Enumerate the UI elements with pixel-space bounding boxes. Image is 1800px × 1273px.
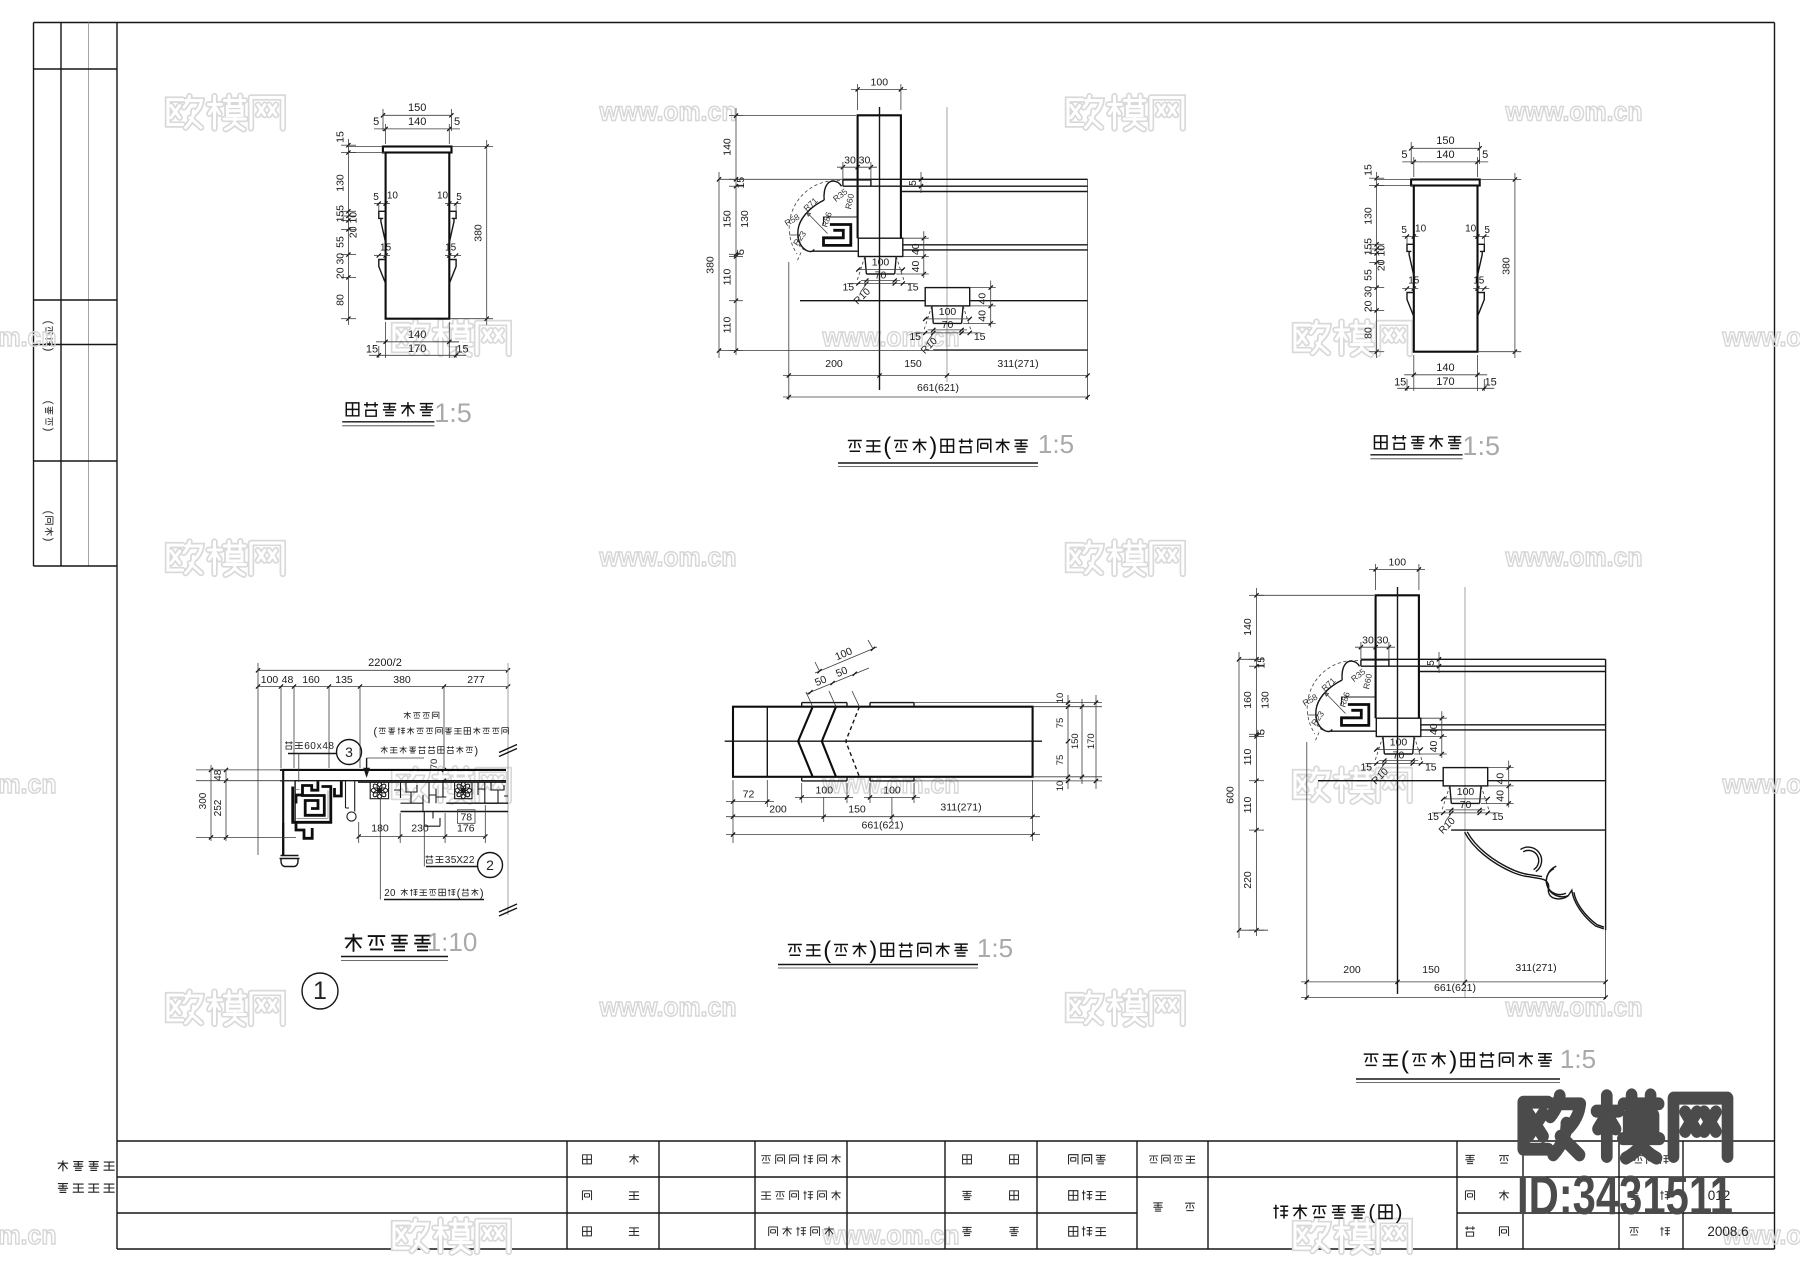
svg-text:15: 15 — [1394, 377, 1406, 389]
drawing6 lower dou block height dims 40 40 — [1508, 761, 1510, 808]
svg-text:1:5: 1:5 — [1038, 429, 1074, 459]
svg-text:15: 15 — [335, 131, 347, 143]
drawing6 bottom dim 661 — [1301, 997, 1606, 999]
drawing6 title — [1364, 1054, 1379, 1065]
drawing2 upper dou block height dims 40 40 — [923, 231, 925, 278]
svg-text:www.om.cn: www.om.cn — [822, 322, 960, 352]
drawing6 column centerline — [1397, 587, 1399, 870]
svg-text:170: 170 — [1436, 376, 1454, 388]
site logo oumowang dark overlay — [1523, 1096, 1580, 1155]
svg-text:252: 252 — [213, 799, 224, 816]
svg-text:): ) — [1396, 1201, 1403, 1224]
drawing4 rosette 1 box — [370, 782, 388, 799]
drawing4 mid fret band — [394, 782, 446, 811]
svg-text:www.om.cn: www.om.cn — [1505, 542, 1643, 572]
svg-text:100: 100 — [261, 674, 279, 686]
svg-text:380: 380 — [393, 674, 411, 686]
svg-text:661(621): 661(621) — [861, 820, 903, 832]
drawing2 cloud bracket comma hook — [824, 181, 842, 200]
svg-text:40: 40 — [977, 310, 989, 322]
drawing1 yuntou section (top-left) column cap — [383, 147, 452, 153]
drawing6 beam1 lines — [1361, 658, 1606, 660]
drawing1 yuntou section (top-left) column body — [386, 153, 450, 319]
svg-text:(: ( — [1401, 1047, 1410, 1074]
svg-text:277: 277 — [467, 674, 485, 686]
drawing1 yuntou section (top-left) bracket upper left — [379, 211, 386, 242]
drawing6 dim 30 30 at ledge — [1355, 646, 1395, 648]
svg-text:200: 200 — [769, 804, 787, 816]
svg-text:5: 5 — [1363, 238, 1375, 244]
strip rotated label (discipline) — [42, 511, 56, 542]
drawing2 column centerline — [879, 107, 881, 390]
drawing2 lower dou block outline — [925, 288, 970, 306]
drawing1 yuntou section (top-left) title — [346, 403, 359, 416]
drawing3 yuntou section (top-right) right dim 380 — [1514, 173, 1516, 358]
svg-text:5: 5 — [1401, 225, 1407, 236]
svg-text:(: ( — [1368, 1201, 1375, 1224]
drawing1 yuntou section (top-left) bottom dim 140 — [385, 322, 387, 358]
svg-text:150: 150 — [1422, 964, 1440, 976]
drawing4 column base — [280, 856, 300, 867]
svg-text:(: ( — [883, 433, 891, 460]
svg-text:170: 170 — [1086, 733, 1097, 749]
svg-text:1:5: 1:5 — [1462, 431, 1500, 461]
svg-text:48: 48 — [282, 674, 294, 686]
drawing6 beam2 lines — [1421, 724, 1606, 726]
drawing6 upper dou block height dims 40 40 — [1441, 711, 1443, 758]
svg-text:40: 40 — [910, 261, 922, 273]
svg-text:100: 100 — [939, 306, 957, 318]
svg-text:3: 3 — [445, 855, 451, 866]
drawing2 upper dou block outline — [858, 238, 903, 256]
svg-text:10: 10 — [1465, 224, 1477, 235]
svg-text:(: ( — [42, 401, 56, 405]
drawing5 chevron B — [822, 707, 836, 777]
svg-text:70: 70 — [875, 270, 887, 282]
drawing5 title — [788, 944, 802, 955]
svg-text:661(621): 661(621) — [917, 382, 959, 394]
svg-text:15: 15 — [1473, 276, 1485, 287]
drawing4 mid fret lower hook — [424, 812, 440, 827]
svg-text:): ) — [869, 937, 877, 964]
svg-text:5: 5 — [335, 205, 347, 211]
drawing3 yuntou section (top-right) bottom dim 140 — [1413, 355, 1415, 391]
svg-text:380: 380 — [473, 224, 485, 242]
svg-text:5: 5 — [908, 180, 919, 186]
drawing5 chevron C dashed — [846, 707, 860, 777]
svg-text:170: 170 — [408, 343, 426, 355]
drawing3 yuntou section (top-right) top dim 150 — [1411, 147, 1479, 149]
drawing6 cloud bracket fret — [1342, 705, 1369, 726]
svg-text:10: 10 — [437, 191, 449, 202]
drawing6 lower dou block dims — [1442, 798, 1489, 800]
svg-text:40: 40 — [1495, 790, 1507, 802]
svg-text:130: 130 — [739, 210, 751, 228]
drawing4 right axis with breaks — [507, 663, 509, 915]
drawing2 cloud bracket bottom edge — [812, 250, 858, 252]
svg-text:200: 200 — [1343, 964, 1361, 976]
drawing6 cloud bracket dashed reference arc — [1307, 660, 1358, 734]
drawing4 column — [282, 770, 284, 856]
svg-text:www.om.cn: www.om.cn — [1505, 992, 1643, 1022]
svg-text:): ) — [42, 538, 56, 542]
svg-text:): ) — [480, 887, 484, 899]
svg-text:150: 150 — [408, 102, 426, 114]
svg-text:3: 3 — [345, 744, 353, 760]
drawing2 cloud bracket dashed reference arc — [789, 180, 840, 254]
drawing1 yuntou section (top-left) bracket upper right — [449, 211, 456, 242]
svg-text:5: 5 — [1401, 149, 1407, 161]
svg-text:www.om.cn: www.om.cn — [599, 97, 737, 127]
svg-text:1:5: 1:5 — [1560, 1044, 1596, 1074]
svg-text:200: 200 — [825, 358, 843, 370]
drawing6 bracket leader arrow — [1325, 693, 1346, 714]
svg-text:10: 10 — [387, 191, 399, 202]
svg-text:110: 110 — [722, 316, 734, 333]
drawing6 ledge — [1361, 660, 1389, 666]
svg-text:110: 110 — [1242, 796, 1254, 813]
drawing5 bottom pads — [802, 780, 847, 782]
drawing2 beam2 lines — [903, 244, 1088, 246]
drawing2 left dim chain — [735, 108, 737, 355]
drawing6 sparrow brace (queti) — [1465, 832, 1604, 929]
svg-text:150: 150 — [1436, 135, 1454, 147]
drawing1 yuntou section (top-left) left dim chain — [347, 139, 349, 325]
drawing1 yuntou section (top-left) right dim 380 — [486, 140, 488, 325]
drawing2 beam1 lines — [843, 178, 1088, 180]
svg-text:6: 6 — [304, 741, 310, 752]
svg-text:www.om.cn: www.om.cn — [1505, 97, 1643, 127]
svg-text:5: 5 — [735, 249, 747, 255]
drawing5 centerline — [725, 740, 1042, 742]
drawing5 top pads — [802, 702, 847, 704]
svg-text:140: 140 — [408, 116, 426, 128]
drawing2 dim 30 30 at ledge — [837, 166, 877, 168]
svg-text:x: x — [317, 741, 322, 752]
svg-text:15: 15 — [1485, 377, 1497, 389]
svg-text:140: 140 — [1436, 149, 1454, 161]
svg-text:20 30: 20 30 — [335, 253, 347, 279]
drawing3 yuntou section (top-right) bracket lower right — [1478, 293, 1485, 317]
drawing6 cloud bracket comma hook — [1342, 661, 1360, 680]
svg-text:15: 15 — [456, 344, 468, 356]
svg-text:www.om.cn: www.om.cn — [0, 1220, 57, 1250]
svg-text:15: 15 — [842, 282, 854, 294]
drawing4 rosette 1 — [371, 782, 388, 799]
drawing1 yuntou section (top-left) bottom dim 15 170 15 — [378, 346, 380, 358]
drawing6 cloud bracket main arc — [1316, 680, 1342, 731]
drawing2 bottom dims 200 150 311 — [788, 262, 790, 400]
svg-text:40: 40 — [1428, 723, 1440, 735]
drawing6 beam3 line — [1318, 780, 1443, 782]
svg-text:15: 15 — [380, 243, 392, 254]
svg-text:15: 15 — [735, 177, 747, 189]
drawing3 yuntou section (top-right) bracket upper left — [1407, 244, 1414, 275]
svg-text:8: 8 — [328, 741, 334, 752]
drawing2 overall dim 380 — [718, 172, 720, 358]
svg-text:100: 100 — [872, 257, 890, 269]
drawing2 title — [848, 440, 862, 451]
svg-text:www.om.cn: www.om.cn — [0, 322, 57, 352]
svg-text:20 30: 20 30 — [1363, 286, 1375, 312]
drawing4 note yingmu35X22 with bubble 2 — [426, 855, 434, 863]
drawing5 main dim 200 150 311 — [823, 797, 825, 822]
svg-text:www.om.cn: www.om.cn — [1722, 769, 1800, 799]
svg-text:75: 75 — [1055, 718, 1066, 729]
drawing5 dims 100 100 under pads — [801, 783, 803, 803]
svg-text:(: ( — [823, 937, 831, 964]
drawing5 right dim 170 — [1095, 695, 1097, 789]
svg-text:2: 2 — [384, 888, 389, 899]
drawing4 note gualuo unit — [404, 712, 411, 719]
svg-text:100: 100 — [883, 785, 901, 797]
svg-text:15: 15 — [366, 344, 378, 356]
drawing6 upper dou block outline — [1376, 718, 1421, 736]
svg-text:15: 15 — [1256, 657, 1268, 669]
svg-text:www.om.cn: www.om.cn — [1722, 322, 1800, 352]
drawing6 lower dou block outline — [1443, 768, 1488, 786]
drawing2 column — [858, 115, 901, 238]
drawing4 big fret left — [296, 781, 318, 803]
svg-text:5: 5 — [1426, 660, 1437, 666]
drawing2 bracket leader arrow — [807, 213, 828, 234]
svg-text:www.om.cn: www.om.cn — [599, 542, 737, 572]
strip rotated label (signature) — [42, 401, 56, 432]
svg-text:661(621): 661(621) — [1434, 982, 1476, 994]
svg-text:55: 55 — [335, 236, 347, 248]
drawing6 centerline extension — [1397, 870, 1399, 994]
svg-text:140: 140 — [1242, 618, 1254, 636]
drawing2 beam3 line — [800, 300, 925, 302]
svg-text:15: 15 — [1363, 244, 1375, 256]
svg-text:15: 15 — [974, 331, 986, 343]
title block labels col responsible — [761, 1156, 771, 1163]
svg-text:20 10: 20 10 — [348, 212, 360, 238]
svg-text:30: 30 — [844, 155, 856, 167]
drawing4 top dim 2200/2 — [258, 669, 508, 671]
svg-text:150: 150 — [904, 358, 922, 370]
svg-text:(: ( — [457, 887, 461, 899]
drawing4 bubble 1 — [302, 973, 338, 1009]
drawing3 yuntou section (top-right) left dim chain — [1376, 172, 1378, 358]
svg-text:80: 80 — [1363, 327, 1375, 339]
svg-text:15: 15 — [907, 282, 919, 294]
drawing6 left dim chain — [1256, 588, 1258, 936]
drawing6 overall dim 600 — [1238, 652, 1240, 938]
drawing2 cloud bracket main arc — [798, 200, 824, 251]
svg-text:15: 15 — [1360, 762, 1372, 774]
svg-text:40: 40 — [1428, 741, 1440, 753]
drawing2 upper dou block dims — [857, 269, 904, 271]
svg-text:): ) — [1449, 1047, 1457, 1074]
svg-text:380: 380 — [705, 256, 717, 274]
title block labels col shen-ding — [583, 1155, 592, 1164]
drawing2 lower dou block height dims 40 40 — [990, 281, 992, 328]
svg-text:230: 230 — [411, 823, 429, 835]
svg-text:(: ( — [42, 511, 56, 515]
svg-text:www.om.cn: www.om.cn — [822, 1220, 960, 1250]
drawing2 cloud bracket fret — [824, 225, 851, 246]
drawing1 yuntou section (top-left) bracket lower right — [449, 260, 456, 284]
svg-text:600: 600 — [1225, 786, 1237, 804]
drawing2 beam4 line — [933, 349, 1088, 351]
drawing4 lattice rail top — [358, 781, 506, 783]
drawing3 yuntou section (top-right) column cap — [1411, 180, 1480, 186]
svg-text:5: 5 — [373, 192, 379, 203]
drawing2 dim 100 column top — [851, 88, 907, 90]
svg-text:2200/2: 2200/2 — [368, 657, 402, 669]
drawing2 dim 5 beam plate — [920, 172, 922, 193]
drawing5 beam outline — [733, 707, 1033, 777]
drawing3 yuntou section (top-right) column body — [1414, 186, 1478, 352]
drawing3 yuntou section (top-right) title — [1374, 436, 1387, 449]
svg-text:100: 100 — [1457, 786, 1475, 798]
drawing2 cloud bracket fret thin frame — [824, 217, 858, 225]
svg-text:30: 30 — [1362, 635, 1374, 647]
drawing5 left cap line — [766, 707, 768, 777]
svg-text:www.om.cn: www.om.cn — [599, 992, 737, 1022]
drawing5 rotated dims 100 50 50 — [806, 668, 869, 694]
drawing6 cloud bracket bottom edge — [1330, 730, 1376, 732]
svg-text:15: 15 — [1363, 164, 1375, 176]
drawing4 big fret gray echo — [296, 790, 329, 819]
svg-text:140: 140 — [1436, 362, 1454, 374]
svg-text:311(271): 311(271) — [997, 358, 1038, 370]
svg-text:10: 10 — [1415, 224, 1427, 235]
svg-text:140: 140 — [722, 138, 734, 156]
svg-text:1:5: 1:5 — [977, 933, 1013, 963]
svg-text:40: 40 — [910, 243, 922, 255]
svg-text:150: 150 — [848, 804, 866, 816]
drawing5 right dim 150 — [1081, 699, 1083, 784]
svg-text:130: 130 — [1260, 691, 1272, 709]
svg-text:100: 100 — [816, 785, 834, 797]
svg-text:160: 160 — [302, 674, 320, 686]
svg-text:140: 140 — [408, 329, 426, 341]
drawing5 dim 661 — [726, 834, 1040, 836]
drawing2 ledge — [843, 180, 871, 186]
svg-text:(: ( — [373, 726, 377, 738]
svg-text:100: 100 — [871, 77, 889, 89]
drawing4 title — [345, 934, 362, 952]
svg-text:5: 5 — [1256, 729, 1268, 735]
drawing4 rosette 2 box — [455, 782, 472, 799]
svg-text:1:10: 1:10 — [427, 927, 478, 957]
drawing6 bottom dims 200 150 311 — [1306, 742, 1308, 1000]
title block right labels — [1465, 1155, 1474, 1163]
svg-text:130: 130 — [1363, 207, 1375, 225]
drawing6 beam4 line — [1451, 829, 1606, 831]
drawing3 yuntou section (top-right) top dim 5 140 5 — [1402, 161, 1488, 163]
svg-text:30: 30 — [859, 155, 871, 167]
svg-text:15: 15 — [445, 243, 457, 254]
svg-text:15: 15 — [335, 211, 347, 223]
svg-text:2008.6: 2008.6 — [1707, 1224, 1748, 1239]
svg-text:5: 5 — [1484, 225, 1490, 236]
drawing4 beam — [280, 769, 506, 771]
svg-text:80: 80 — [335, 294, 347, 306]
drawing5 right dims chain 10 75 75 10 — [914, 702, 1102, 704]
watermark grid — [168, 96, 202, 127]
svg-text:75: 75 — [1055, 755, 1066, 766]
drawing4 rosette 2 — [455, 782, 472, 799]
drawing4 dim extension verticals — [280, 687, 282, 769]
svg-text:10: 10 — [1055, 781, 1066, 792]
drawing2 lower dou block dims — [924, 318, 971, 320]
strip rotated label (date) — [42, 321, 56, 352]
svg-text:72: 72 — [743, 789, 755, 801]
svg-text:15: 15 — [1408, 276, 1420, 287]
drawing title text jingguanting — [1273, 1205, 1288, 1219]
svg-text:78: 78 — [460, 811, 472, 823]
svg-text:380: 380 — [1501, 257, 1513, 275]
svg-text:5: 5 — [456, 192, 462, 203]
drawing3 yuntou section (top-right) bracket lower left — [1407, 293, 1414, 317]
svg-text:5: 5 — [373, 116, 379, 128]
svg-text:70: 70 — [429, 759, 440, 770]
drawing6 right edge — [1605, 659, 1607, 930]
svg-text:100: 100 — [1390, 737, 1408, 749]
drawing4 right fret — [478, 782, 508, 803]
svg-text:15: 15 — [1492, 811, 1504, 823]
svg-text:160: 160 — [1242, 691, 1254, 709]
svg-text:10: 10 — [1055, 693, 1066, 704]
drawing6 dim 100 column top — [1369, 568, 1425, 570]
drawing6 axis line — [1464, 587, 1466, 862]
drawing1 yuntou section (top-left) top dim 150 — [383, 114, 451, 116]
page border frame — [34, 22, 1775, 24]
svg-text:0: 0 — [390, 888, 396, 899]
svg-text:135: 135 — [335, 674, 353, 686]
svg-text:): ) — [929, 433, 937, 460]
drawing1 yuntou section (top-left) bracket lower left — [379, 260, 386, 284]
svg-text:311(271): 311(271) — [1515, 962, 1556, 974]
svg-text:70: 70 — [1460, 799, 1472, 811]
svg-text:300: 300 — [198, 792, 209, 809]
drawing2 axis line — [946, 107, 948, 382]
svg-text:176: 176 — [457, 823, 475, 835]
drawing6 column — [1376, 595, 1419, 718]
drawing6 upper dou block dims — [1375, 749, 1422, 751]
svg-text:311(271): 311(271) — [940, 802, 981, 814]
svg-text:ID:3431511: ID:3431511 — [1517, 1164, 1733, 1226]
svg-text:15: 15 — [1425, 762, 1437, 774]
title block right labels 2 — [1634, 1156, 1644, 1163]
svg-text:15: 15 — [1427, 811, 1439, 823]
svg-text:0: 0 — [310, 741, 316, 752]
svg-text:220: 220 — [1242, 871, 1254, 889]
title block names — [1069, 1155, 1078, 1165]
svg-text:100: 100 — [1389, 557, 1407, 569]
title block grid — [117, 1140, 1775, 1142]
left signature strip — [33, 23, 35, 567]
drawing4 dims 180 230 78 176 — [359, 836, 486, 838]
svg-text:150: 150 — [1070, 733, 1081, 749]
svg-text:110: 110 — [722, 268, 734, 285]
no-seal-invalid note bottom left — [58, 1160, 69, 1171]
svg-text:2: 2 — [486, 857, 494, 873]
svg-text:): ) — [474, 745, 478, 757]
svg-text:30: 30 — [1377, 635, 1389, 647]
svg-text:70: 70 — [942, 319, 954, 331]
title block project-name / drawing-name labels — [1149, 1156, 1158, 1163]
drawing5 dim 72 — [732, 780, 734, 843]
drawing4 dim row 100 48 160 135 380 277 — [258, 686, 508, 688]
drawing3 yuntou section (top-right) bracket upper right — [1478, 244, 1485, 275]
svg-text:150: 150 — [722, 210, 734, 228]
svg-text:55: 55 — [1363, 269, 1375, 281]
drawing4 leader arrow to beam — [366, 758, 368, 776]
